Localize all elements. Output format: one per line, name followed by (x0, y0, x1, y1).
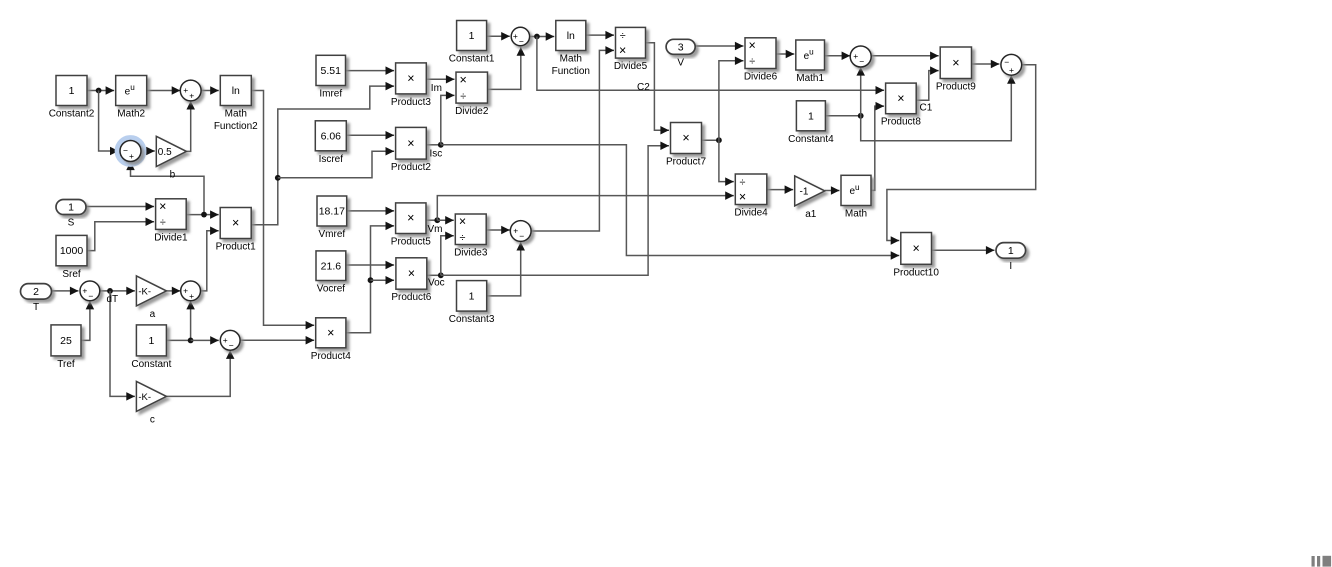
svg-text:×: × (407, 136, 414, 150)
svg-text:V: V (677, 57, 684, 68)
wire C2 to Product8 in1 (537, 37, 884, 95)
wire Product10 to output I (932, 246, 995, 255)
svg-text:−: − (519, 231, 524, 241)
svg-text:Constant1: Constant1 (449, 54, 495, 65)
wire Isc branch to Product10 in2 (441, 145, 900, 260)
wire Constant2 to Math2 (87, 86, 114, 95)
divide Divide1 (154, 199, 188, 244)
svg-text:Iscref: Iscref (319, 154, 344, 165)
input port S (1) (56, 200, 86, 229)
math block Math Function (ln) (552, 21, 590, 78)
svg-text:+: + (513, 31, 518, 41)
wire Sum1 to Math Function2 (201, 86, 219, 95)
svg-text:0.5: 0.5 (158, 147, 172, 158)
svg-text:×: × (619, 43, 626, 57)
wire Product7 branch to Divide4 in1 (719, 140, 734, 186)
wire Constant4 branch to Sum7 bottom input (856, 67, 865, 116)
sum Sum7 (+ -) (850, 46, 871, 67)
svg-text:×: × (912, 241, 919, 255)
svg-text:Math1: Math1 (796, 73, 824, 84)
wire gain a to Sum4 (166, 287, 180, 296)
sum Sum5 (+ -) (220, 330, 240, 350)
sum Sum2 (- +) selected with blue highlight (117, 138, 143, 164)
gain a1 (-1) (795, 176, 825, 220)
svg-text:Product6: Product6 (391, 292, 431, 303)
svg-text:Math2: Math2 (117, 109, 145, 120)
svg-text:−: − (859, 57, 864, 67)
svg-text:Product3: Product3 (391, 97, 431, 108)
wire dT branch to gain c (110, 291, 135, 401)
input port T (2) (21, 284, 52, 314)
svg-text:-K-: -K- (138, 286, 151, 297)
wire Constant1 to Sum6 (487, 32, 510, 41)
wire Voc branch to Divide3 in2 (441, 232, 454, 276)
svg-text:Product5: Product5 (391, 237, 431, 248)
svg-text:S: S (68, 218, 75, 229)
svg-text:Product9: Product9 (936, 82, 976, 93)
svg-text:1: 1 (808, 110, 814, 122)
wire Voc branch to Product7 in2 (441, 142, 669, 276)
gain a (-K-) (136, 276, 166, 320)
svg-text:T: T (33, 302, 39, 313)
divide Divide4 (734, 174, 768, 219)
svg-text:+: + (82, 286, 87, 296)
wire Constant4 output segment (825, 115, 860, 117)
svg-text:Divide1: Divide1 (154, 232, 188, 243)
svg-text:dT: dT (107, 294, 119, 305)
junction b on Divide1 output (201, 212, 207, 218)
svg-text:Sref: Sref (62, 269, 81, 280)
math block Math1 (e^u) (796, 40, 825, 84)
svg-text:1: 1 (469, 290, 475, 302)
svg-text:Product2: Product2 (391, 162, 431, 173)
divide Divide5 (614, 27, 648, 72)
junction C2 on Sum6 output (534, 34, 540, 40)
constant Constant3 (value 1) (449, 281, 495, 326)
wire Divide4 to gain a1 (767, 185, 793, 194)
svg-text:Divide5: Divide5 (614, 61, 648, 72)
product Product2 (391, 127, 431, 173)
svg-text:C2: C2 (637, 82, 650, 93)
wire Sum8 to Divide5 in2 (531, 46, 614, 231)
math block Math Function2 (ln) (214, 76, 258, 133)
product Product9 (936, 47, 976, 93)
net label Im (431, 83, 442, 94)
wire Product1 branch to Product2 in2 (278, 147, 394, 178)
wire Constant to Sum4 bottom input (166, 301, 194, 341)
svg-text:Product7: Product7 (666, 157, 706, 168)
wire Sref to Divide1 in2 (87, 218, 154, 251)
wire T to Sum3 (50, 287, 78, 296)
wire Constant3 to Sum8 bottom input (487, 242, 525, 296)
wire Sum4 to Product1 in2 (201, 227, 219, 291)
wire Product7 output segment (702, 139, 719, 141)
net label Isc (430, 149, 443, 160)
constant Sref (value 1000) (56, 235, 87, 279)
svg-text:+: + (1009, 65, 1014, 75)
svg-text:×: × (897, 91, 904, 105)
svg-text:+: + (183, 85, 188, 95)
wire Divide1 to Product1 in1 (186, 210, 219, 219)
svg-text:Isc: Isc (430, 149, 443, 160)
wire Constant branch to Sum5 (191, 336, 219, 345)
wire b from Divide1 output junction to Sum2 bottom input (126, 162, 204, 215)
svg-text:÷: ÷ (620, 30, 626, 42)
sum Sum9 (- +) (1001, 54, 1022, 75)
svg-text:Product10: Product10 (893, 267, 939, 278)
math block Math (e^u) (841, 175, 871, 219)
output port I (1) (996, 243, 1026, 273)
svg-text:−: − (88, 291, 93, 301)
wire Divide6 to Math1 (776, 50, 794, 59)
svg-text:−: − (519, 37, 524, 47)
wire gain c to Sum5 bottom input (166, 350, 234, 396)
wire Math to Product8 in2 (871, 102, 884, 191)
wire Sum7 to Product9 in1 (871, 51, 939, 60)
wire V to Divide6 in1 (695, 42, 743, 51)
sum Sum4 (+ +) (181, 281, 201, 301)
svg-text:2: 2 (33, 286, 39, 298)
svg-text:÷: ÷ (460, 232, 466, 244)
svg-text:Constant: Constant (131, 359, 171, 370)
constant Iscref (value 6.06) (315, 121, 346, 165)
svg-text:a: a (150, 309, 156, 320)
svg-text:÷: ÷ (749, 56, 755, 68)
svg-text:Vocref: Vocref (317, 284, 346, 295)
constant Constant1 (value 1) (449, 21, 495, 65)
wire Math1 to Sum7 (825, 52, 851, 61)
svg-text:3: 3 (678, 41, 684, 53)
wire Isc branch to Divide2 in2 (441, 91, 455, 145)
junction Vm (434, 217, 440, 223)
svg-text:18.17: 18.17 (319, 206, 345, 218)
svg-text:ln: ln (567, 30, 575, 42)
svg-text:Constant4: Constant4 (788, 134, 834, 145)
constant Constant2 (value 1) (49, 76, 95, 120)
wire Math Function to Divide5 in1 (586, 31, 614, 39)
svg-text:1: 1 (469, 30, 475, 42)
sum Sum6 (+ -) (511, 27, 529, 46)
svg-text:1: 1 (1008, 245, 1014, 257)
svg-text:Divide4: Divide4 (734, 208, 768, 219)
wire Constant4 branch to Sum9 bottom input (861, 75, 1016, 141)
svg-text:Constant2: Constant2 (49, 109, 95, 120)
svg-text:-K-: -K- (138, 392, 151, 403)
sum Sum8 (+ -) (510, 221, 531, 242)
wire Vocref to Product6 in1 (346, 261, 394, 270)
svg-text:Divide3: Divide3 (454, 248, 488, 259)
wire gain b to Sum1 bottom input (186, 101, 195, 151)
svg-text:−: − (229, 340, 234, 350)
svg-text:Function: Function (552, 66, 590, 77)
svg-text:×: × (682, 131, 689, 145)
svg-text:−: − (123, 146, 128, 156)
svg-text:×: × (327, 326, 334, 340)
svg-text:Imref: Imref (319, 89, 342, 100)
wire S to Divide1 in1 (86, 202, 154, 211)
junction on Product4 output riser (368, 277, 374, 283)
wire Sum9 to Product10 in1 (887, 65, 1036, 245)
junction on Product1 output riser (275, 175, 281, 181)
wire Imref to Product3 in1 (346, 66, 395, 75)
junction dT on Sum3 output (107, 288, 113, 294)
product Product7 (666, 123, 706, 168)
product Product6 (391, 258, 431, 303)
wire Constant2 branch to Sum2 left input (99, 91, 119, 156)
net label Vm (428, 224, 443, 235)
divide Divide6 (744, 38, 778, 83)
svg-text:21.6: 21.6 (321, 260, 342, 272)
wire Sum5 to Product4 in2 (240, 336, 314, 345)
svg-text:+: + (129, 151, 134, 161)
svg-text:÷: ÷ (740, 177, 746, 189)
net label C1 (920, 103, 933, 114)
svg-text:+: + (183, 286, 188, 296)
net label Voc (428, 278, 445, 289)
svg-text:Math: Math (225, 109, 247, 120)
svg-text:Voc: Voc (428, 278, 445, 289)
divide Divide2 (455, 72, 489, 117)
wire Voc Product6 output segment (427, 274, 441, 276)
svg-text:1: 1 (148, 335, 154, 347)
svg-text:+: + (513, 226, 518, 236)
wire Isc Product2 output segment (426, 144, 441, 146)
input port V (3) (666, 39, 695, 68)
svg-text:1000: 1000 (60, 245, 84, 257)
product Product4 (311, 318, 351, 362)
svg-text:Product4: Product4 (311, 351, 351, 362)
gain c (-K-) (136, 381, 166, 425)
wire Vm to Divide3 in1 (437, 216, 454, 225)
svg-text:Tref: Tref (57, 359, 75, 370)
product Product8 (881, 83, 921, 128)
constant Constant (value 1) (131, 325, 171, 370)
svg-text:+: + (853, 51, 858, 61)
svg-text:1: 1 (69, 85, 75, 97)
product Product5 (391, 203, 431, 248)
svg-text:ln: ln (232, 85, 240, 97)
svg-text:Divide2: Divide2 (455, 106, 489, 117)
svg-text:Math: Math (560, 54, 582, 65)
wire Iscref to Product2 in1 (346, 131, 394, 140)
constant Vocref (value 21.6) (316, 251, 346, 295)
svg-text:×: × (459, 215, 466, 229)
wire Vm Product5 output segment (426, 219, 437, 221)
net label dT (107, 294, 119, 305)
constant Imref (value 5.51) (316, 55, 346, 99)
svg-text:×: × (749, 38, 756, 52)
product Product1 (216, 208, 256, 253)
wire dT Sum3 to gain a (100, 287, 135, 296)
wire Math Function2 to Product4 in1 (251, 91, 314, 330)
junction on Constant output (188, 338, 194, 344)
wire Sum2 to gain b (141, 147, 155, 156)
wire Sum6 to Math Function (530, 32, 555, 41)
svg-text:6.06: 6.06 (321, 130, 342, 142)
svg-text:Im: Im (431, 83, 442, 94)
product Product10 (893, 233, 939, 279)
junction Isc (438, 142, 444, 148)
svg-text:C1: C1 (920, 103, 933, 114)
sum Sum1 (+ +) (180, 80, 201, 101)
constant Constant4 (value 1) (788, 101, 834, 145)
svg-text:Product8: Product8 (881, 117, 921, 128)
svg-text:×: × (407, 211, 414, 225)
svg-text:5.51: 5.51 (321, 65, 342, 77)
wire Im Product3 to Divide2 in1 (426, 75, 454, 84)
svg-text:×: × (952, 56, 959, 70)
wire Divide2 to Sum6 bottom input (488, 47, 526, 89)
window resize marks bottom-right (1312, 556, 1332, 567)
svg-text:×: × (159, 199, 166, 213)
junction on Product7 output (716, 137, 722, 143)
svg-text:÷: ÷ (460, 90, 466, 102)
product Product3 (391, 63, 431, 108)
wire Divide5 to Product7 in1 (646, 43, 670, 135)
wire Product4 output to Product5 in2 (346, 222, 394, 333)
wire Divide3 to Sum8 (486, 226, 510, 235)
svg-text:Divide6: Divide6 (744, 72, 778, 83)
svg-text:25: 25 (60, 335, 72, 347)
net label C2 (637, 82, 650, 93)
svg-text:×: × (739, 190, 746, 204)
wire Product9 to Sum9 (972, 60, 1000, 69)
gain b (0.5) (156, 136, 186, 180)
wire Vmref to Product5 in1 (347, 207, 394, 216)
svg-text:Vmref: Vmref (319, 229, 346, 240)
svg-text:Constant3: Constant3 (449, 314, 495, 325)
junction on Constant2 output (96, 88, 102, 94)
divide Divide3 (454, 214, 488, 259)
junction Voc (438, 272, 444, 278)
svg-text:a1: a1 (805, 209, 817, 220)
math block Math2 (e^u) (116, 76, 147, 120)
wire gain a1 to Math (825, 186, 840, 195)
constant Vmref (value 18.17) (317, 196, 347, 240)
svg-text:b: b (170, 170, 176, 181)
svg-text:Product1: Product1 (216, 242, 256, 253)
wire Tref to Sum3 bottom input (81, 301, 94, 341)
wire C1 Product8 to Product9 in2 (916, 66, 939, 100)
wire Vm branch to Divide4 in2 (437, 191, 734, 220)
sum Sum3 (+ -) (80, 281, 100, 301)
svg-text:-1: -1 (800, 186, 809, 197)
wire Product1 output to Product3 in2 (251, 82, 394, 225)
constant Tref (value 25) (51, 325, 81, 370)
svg-text:×: × (232, 216, 239, 230)
svg-text:1: 1 (68, 202, 74, 214)
svg-text:c: c (150, 414, 155, 425)
svg-text:Vm: Vm (428, 224, 443, 235)
wire Product4 branch to Product6 in2 (371, 276, 395, 285)
svg-text:×: × (460, 73, 467, 87)
wire Product7 branch to Divide6 in2 (719, 57, 744, 141)
svg-text:Math: Math (845, 209, 867, 220)
wire Math2 to Sum1 (147, 86, 181, 95)
svg-text:+: + (223, 335, 228, 345)
svg-text:Function2: Function2 (214, 121, 258, 132)
svg-text:+: + (189, 291, 194, 301)
svg-text:I: I (1009, 261, 1012, 272)
svg-text:×: × (407, 71, 414, 85)
svg-text:+: + (189, 91, 194, 101)
svg-text:÷: ÷ (160, 217, 166, 229)
junction on Constant4 output (858, 113, 864, 119)
svg-text:×: × (408, 267, 415, 281)
